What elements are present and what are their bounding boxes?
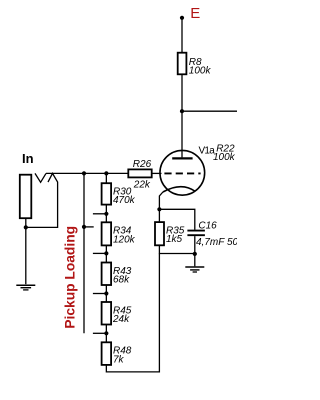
wire plate node to right edge: [182, 110, 237, 112]
wire cathode node to C16: [159, 209, 194, 229]
jack J1 sleeve body: [20, 175, 32, 219]
resistor R26: [128, 169, 151, 177]
node E junction dot: [180, 16, 184, 20]
cathode arc: [163, 187, 195, 192]
cathode lead: [159, 192, 163, 209]
resistor R8: [178, 53, 187, 75]
wire chain top lead: [105, 173, 107, 183]
svg-text:4,7mF 50V: 4,7mF 50V: [196, 237, 237, 248]
resistor R30: [102, 183, 112, 204]
junction dot plate node: [180, 109, 184, 113]
svg-text:In: In: [22, 151, 34, 166]
resistor R34: [102, 222, 112, 245]
svg-text:R26: R26: [133, 159, 152, 170]
svg-text:24k: 24k: [112, 314, 130, 325]
svg-text:1k5: 1k5: [166, 234, 183, 245]
svg-text:C16: C16: [198, 221, 217, 232]
wire R34 to R43: [105, 245, 107, 263]
junction dot sleeve node: [24, 225, 28, 229]
wire sleeve lead down: [25, 218, 27, 284]
resistor R35: [155, 222, 164, 245]
junction dot tap4: [104, 331, 108, 335]
wire R26 to grid: [152, 172, 162, 174]
junction dot ground node: [193, 252, 197, 256]
svg-text:100k: 100k: [189, 66, 212, 77]
wire wiper stub: [84, 226, 94, 228]
resistor R43: [102, 263, 112, 286]
ground (input): [16, 285, 35, 290]
svg-text:E: E: [190, 5, 200, 22]
wire tap1 stub: [93, 213, 106, 215]
jack tip spring contact V: [35, 173, 46, 182]
wire R45 to R48: [105, 325, 107, 343]
wire R35 bottom: [159, 245, 194, 253]
anode plate bar: [172, 157, 192, 159]
capacitor C16: [187, 230, 205, 232]
resistor R45: [102, 302, 112, 325]
jack switch contact and tip wire: [26, 173, 58, 227]
wire tap3 stub: [93, 293, 106, 295]
svg-text:Pickup Loading: Pickup Loading: [62, 226, 77, 329]
wire R43 to R45: [105, 285, 107, 302]
switch pole line: [83, 173, 85, 333]
svg-text:7k: 7k: [113, 354, 125, 365]
junction dot switch line top: [82, 171, 86, 175]
wire input to R26: [46, 172, 128, 174]
grid dashed line: [164, 172, 200, 174]
svg-text:22k: 22k: [133, 180, 151, 191]
wire R8 bottom to plate junction: [181, 74, 183, 111]
junction dot tap3: [104, 291, 108, 295]
resistor R48: [102, 342, 112, 365]
svg-text:100k: 100k: [213, 152, 236, 163]
wire E node to R8 top: [181, 18, 183, 53]
wire plate node down to anode: [181, 111, 183, 157]
wire tap2 stub: [93, 252, 106, 254]
ground (cathode circuit): [185, 254, 204, 272]
wire R30 to R34: [105, 205, 107, 223]
svg-text:120k: 120k: [113, 234, 136, 245]
wire tap4 stub: [93, 332, 106, 334]
wire cathode node to R35: [158, 209, 160, 222]
wire R48 bottom to ground rail: [106, 254, 159, 372]
junction dot wiper: [82, 225, 86, 229]
op: triode V1a envelope: [160, 150, 205, 195]
junction dot cathode node: [157, 207, 161, 211]
junction dot tap1: [104, 212, 108, 216]
junction dot chain top: [104, 171, 108, 175]
svg-text:68k: 68k: [113, 275, 130, 286]
wire C16 bottom lead: [194, 236, 196, 254]
junction dot tap2: [104, 251, 108, 255]
svg-text:470k: 470k: [113, 195, 136, 206]
